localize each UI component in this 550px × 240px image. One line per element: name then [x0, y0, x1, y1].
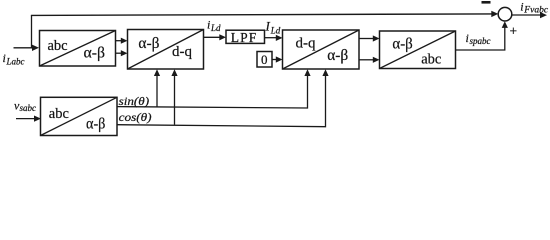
svg-text:d-q: d-q [172, 44, 192, 60]
svg-text:LPF: LPF [231, 30, 258, 45]
svg-text:Ld: Ld [270, 25, 281, 35]
svg-text:I: I [265, 19, 271, 34]
svg-text:abc: abc [421, 52, 441, 68]
label ispabc [466, 31, 491, 46]
arrowhead lower into B4 [373, 57, 380, 63]
wire sin riser to B2 [156, 75, 158, 107]
arrowhead output [540, 12, 547, 18]
wire top feedforward [31, 14, 492, 16]
svg-text:sin(θ): sin(θ) [119, 94, 150, 108]
wire iLd B2 to LPF [204, 36, 221, 38]
wire sin(theta) [117, 75, 308, 108]
svg-text:0: 0 [261, 52, 268, 67]
arrowhead cos into B3 [322, 69, 328, 76]
wire B3 lower to B4 [359, 59, 374, 61]
wire B3 upper to B4 [359, 38, 374, 40]
arrowhead into LPF [219, 34, 226, 40]
svg-text:i: i [520, 0, 523, 14]
block zero constant [257, 52, 272, 68]
svg-text:abc: abc [48, 38, 68, 54]
svg-text:i: i [466, 31, 469, 45]
label iLabc [3, 51, 25, 66]
svg-text:d-q: d-q [296, 36, 316, 52]
arrowhead into summer left [491, 11, 498, 17]
svg-text:i: i [207, 18, 210, 32]
svg-text:α-β: α-β [327, 47, 348, 64]
wire ILd LPF to B3 [265, 37, 277, 39]
wire iFvabc output [512, 14, 541, 16]
arrowhead up into summer [502, 21, 508, 28]
svg-text:α-β: α-β [138, 35, 159, 52]
block U5 abc to alpha-beta (voltage / PLL) [41, 97, 118, 135]
wire alpha out B1 to B2 [116, 40, 122, 42]
wire beta out B1 to B2 [116, 52, 122, 54]
arrowhead ILd into B3 [276, 35, 283, 41]
svg-text:α-β: α-β [86, 115, 105, 132]
svg-text:α-β: α-β [84, 44, 106, 61]
block U1 abc to alpha-beta (current) [40, 31, 116, 67]
svg-text:Ld: Ld [210, 23, 221, 33]
svg-text:spabc: spabc [470, 36, 491, 46]
arrowhead cos into B2 [171, 69, 177, 76]
svg-text:α-β: α-β [392, 35, 412, 52]
svg-text:i: i [3, 51, 6, 65]
svg-text:Labc: Labc [6, 56, 25, 66]
wire cos(theta) [117, 75, 326, 127]
wire ispabc B4 to summer [456, 28, 505, 51]
label ILd [265, 19, 281, 36]
wire zero to B3 [272, 59, 277, 61]
arrowhead upper into B4 [373, 35, 380, 41]
svg-text:sabc: sabc [20, 103, 37, 113]
arrowhead zero into B3 [276, 56, 283, 62]
arrowhead sin into B2 [154, 69, 160, 76]
wire vsabc input [16, 118, 35, 120]
wire cos riser to B2 [174, 75, 176, 125]
svg-text:cos(θ): cos(θ) [119, 110, 152, 124]
block U4 alpha-beta to abc [380, 31, 456, 69]
label vsabc [14, 99, 36, 113]
svg-text:abc: abc [49, 106, 69, 122]
block U2 alpha-beta to d-q [128, 30, 204, 70]
block LPF [226, 30, 265, 45]
summer circle [498, 7, 512, 21]
label iLd [207, 18, 221, 33]
arrowhead alpha into B2 [121, 38, 128, 44]
arrowhead into B5 [34, 116, 41, 122]
arrowhead beta into B2 [121, 50, 128, 56]
svg-text:Fvabc: Fvabc [523, 5, 549, 15]
arrowhead sin into B3 [304, 69, 310, 76]
block U3 d-q to alpha-beta [283, 30, 360, 69]
node branch iLabc [31, 15, 33, 48]
svg-text:+: + [510, 24, 518, 39]
arrowhead into block abc-albet1 [32, 45, 39, 51]
wire iLabc input [14, 47, 34, 49]
label minus sign [482, 1, 491, 4]
label iFvabc [520, 0, 549, 15]
